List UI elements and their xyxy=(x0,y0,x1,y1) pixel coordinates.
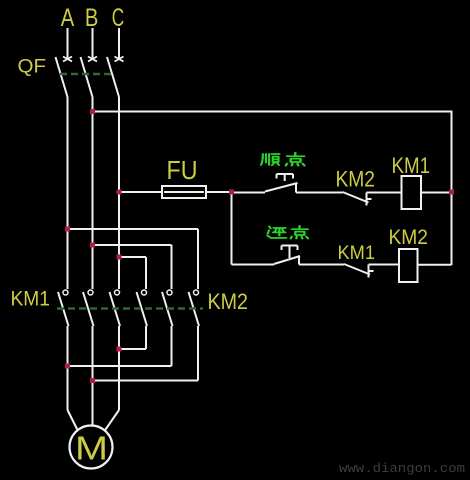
svg-text:FU: FU xyxy=(167,155,198,185)
svg-text:QF: QF xyxy=(18,56,47,78)
svg-text:KM2: KM2 xyxy=(208,289,249,314)
svg-text:KM1: KM1 xyxy=(338,243,376,264)
svg-text:KM2: KM2 xyxy=(389,226,429,249)
svg-text:C: C xyxy=(112,4,125,32)
svg-text:www.diangon.com: www.diangon.com xyxy=(339,461,465,476)
svg-text:KM1: KM1 xyxy=(11,288,51,311)
svg-text:KM1: KM1 xyxy=(392,153,431,178)
svg-text:M: M xyxy=(75,430,108,467)
svg-text:KM2: KM2 xyxy=(336,167,376,192)
svg-text:B: B xyxy=(85,4,99,32)
svg-text:A: A xyxy=(61,4,75,32)
